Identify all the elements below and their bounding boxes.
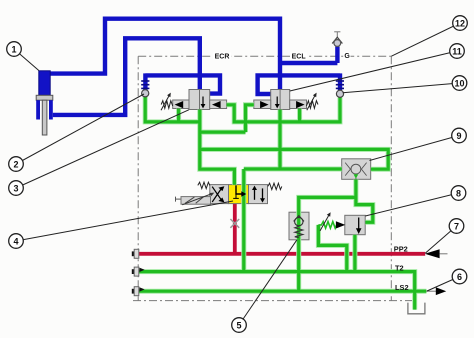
- svg-text:9: 9: [456, 131, 461, 141]
- leader line 6: [427, 277, 460, 292]
- svg-text:8: 8: [456, 188, 461, 198]
- svg-text:6: 6: [457, 272, 462, 282]
- leader line 11: [290, 51, 457, 91]
- callout 6: [452, 269, 467, 284]
- line H3 to shuttle right: [200, 149, 388, 169]
- svg-text:12: 12: [455, 18, 465, 28]
- svg-text:PP2: PP2: [394, 244, 408, 253]
- svg-text:G: G: [344, 53, 350, 60]
- work line from coupling L: [145, 97, 200, 122]
- relief adjust arrow: [320, 214, 329, 231]
- main control valve boxes: [210, 185, 268, 204]
- leader line 4: [16, 201, 233, 241]
- callout 10: [452, 76, 467, 91]
- ECR left wing drop: [177, 109, 180, 122]
- relief valve bottom drop: [353, 235, 356, 272]
- svg-text:3: 3: [13, 183, 18, 193]
- ECL down arrow: [276, 97, 278, 105]
- ECL spring: [307, 101, 319, 109]
- coupling R: [336, 90, 343, 97]
- line H4 to shuttle left: [244, 167, 342, 170]
- callout 1: [7, 42, 22, 57]
- shuttle valve internals: [345, 163, 366, 179]
- check valve box: [289, 212, 309, 240]
- callout 8: [451, 186, 466, 201]
- check valve internals: [294, 216, 304, 238]
- callout 11: [450, 44, 465, 59]
- ECR right wing to H1 and coupling R: [227, 98, 340, 122]
- left edge connector LS2: [132, 287, 145, 296]
- PP2 supply line: [139, 252, 426, 256]
- ECR adjust arrow: [161, 95, 170, 111]
- PP2 inlet arrow: [425, 249, 448, 258]
- main valve left box crossed arrows: [212, 186, 224, 202]
- relief spring side line: [318, 225, 346, 272]
- dashed enclosure border: [133, 56, 412, 300]
- ECR wing triangles: [175, 101, 184, 108]
- tank path through main valve: [242, 169, 245, 272]
- svg-text:2: 2: [13, 159, 18, 169]
- leader line 1: [14, 49, 39, 71]
- filter ticks coupling L: [141, 81, 149, 88]
- line B from ECL main port: [278, 110, 281, 169]
- cylinder item 1: [36, 71, 53, 135]
- line H2: [200, 131, 246, 134]
- valve body ECL: [254, 90, 307, 110]
- main valve springs: [198, 182, 210, 188]
- pilot jog to ECL left port: [258, 75, 280, 94]
- label G: [344, 52, 351, 60]
- svg-text:LS2: LS2: [395, 283, 409, 292]
- green halo underlay: [139, 97, 427, 310]
- pilot branch to coupling R: [280, 73, 340, 90]
- callout 3: [9, 181, 24, 196]
- callout 5: [232, 318, 247, 333]
- callout 12: [453, 16, 468, 31]
- pilot branch to coupling L: [145, 73, 199, 90]
- ECL adjust arrow: [307, 95, 316, 111]
- relief valve triangle and inner arrow: [336, 218, 362, 235]
- label ECL: [290, 53, 307, 61]
- solenoid actuator box: [176, 197, 211, 205]
- leader line 7: [426, 226, 457, 253]
- ECL right wing drop: [298, 109, 301, 122]
- svg-text:ECL: ECL: [292, 54, 307, 61]
- left edge connector T2: [132, 267, 145, 276]
- label ECR: [213, 53, 231, 61]
- svg-text:5: 5: [236, 320, 241, 330]
- leader line 12: [391, 23, 460, 56]
- leader line 10: [343, 83, 460, 93]
- feed to check valve: [299, 197, 356, 291]
- ECR down arrow: [202, 97, 204, 105]
- pilot branch to G port: [280, 47, 337, 64]
- leader line 5: [239, 240, 297, 325]
- left edge connector PP2: [132, 249, 139, 258]
- G test port: [332, 32, 342, 47]
- T2 line and tank drop: [139, 272, 415, 310]
- callout 9: [452, 128, 467, 143]
- svg-text:11: 11: [452, 46, 462, 56]
- callout 4: [9, 234, 24, 249]
- leader line 9: [370, 136, 460, 161]
- tank symbol: [408, 303, 425, 314]
- green spring relief valve: [318, 222, 336, 229]
- pilot jog to ECR right port: [200, 75, 220, 93]
- callout 2: [9, 157, 24, 172]
- solenoid diagonal arrow: [182, 194, 212, 205]
- relief valve box item 8: [345, 215, 365, 234]
- svg-text:T2: T2: [395, 264, 404, 273]
- main valve yellow box symbol: [233, 185, 246, 198]
- work line A from ECR main port: [200, 110, 235, 185]
- pilot line cylinder rod side: [53, 38, 200, 115]
- svg-text:7: 7: [454, 221, 459, 231]
- shuttle valve box: [342, 159, 371, 180]
- leader line 3: [16, 110, 189, 188]
- LS2 line: [139, 290, 427, 293]
- ECL wing triangles: [260, 101, 269, 108]
- valve body ECR: [173, 90, 227, 110]
- PP2 drop from main valve with orifice: [233, 204, 237, 254]
- main valve right box arrows: [252, 186, 265, 203]
- svg-text:10: 10: [454, 78, 464, 88]
- pilot line cylinder head side: [50, 19, 280, 90]
- leader line 8: [365, 193, 458, 216]
- filter ticks coupling R: [336, 81, 344, 88]
- LS2 outlet arrow: [426, 287, 446, 295]
- svg-text:1: 1: [11, 44, 16, 54]
- shuttle bottom jog to relief valve: [356, 179, 373, 222]
- svg-text:ECR: ECR: [215, 54, 230, 61]
- ECR spring: [161, 101, 173, 109]
- callout 7: [449, 219, 464, 234]
- coupling L: [142, 90, 149, 97]
- leader line 2: [16, 94, 144, 164]
- ECL left wing drop: [246, 105, 254, 132]
- svg-text:4: 4: [13, 236, 18, 246]
